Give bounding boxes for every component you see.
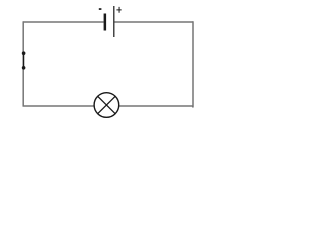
wire bottom-right segment <box>119 105 193 107</box>
battery B1 negative plate (short thick bar) <box>104 14 107 31</box>
wire top-left segment <box>23 21 103 23</box>
battery label + (plus) <box>116 7 121 13</box>
switch S1 lower terminal dot <box>22 66 26 70</box>
wire right segment <box>192 21 193 106</box>
lamp L1 cross stroke 2 <box>98 96 115 113</box>
lamp L1 cross stroke 1 <box>98 96 115 113</box>
battery label - (minus) <box>99 8 102 10</box>
switch S1 upper terminal dot <box>22 51 26 55</box>
wire bottom-left segment <box>23 105 94 107</box>
switch S1 closed blade <box>23 53 25 68</box>
battery B1 positive plate (tall thin bar) <box>113 6 114 37</box>
lamp L1 body circle <box>94 93 119 118</box>
wire top-right segment <box>114 21 193 23</box>
wire left segment <box>22 21 24 106</box>
